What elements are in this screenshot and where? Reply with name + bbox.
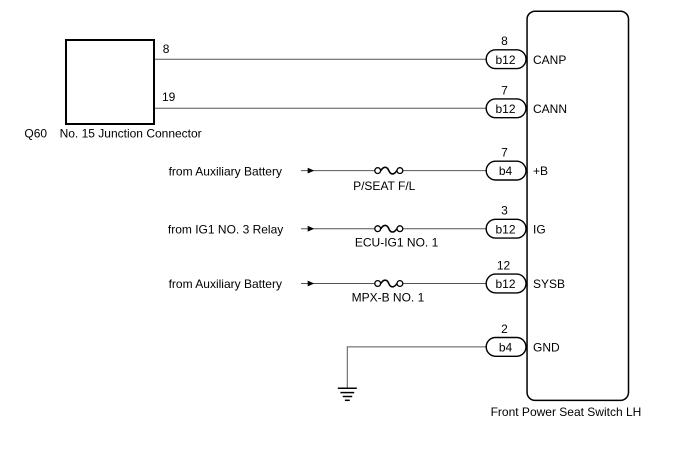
arrow SYSB row	[308, 281, 315, 287]
net label +B	[533, 164, 548, 178]
arrow +B row	[308, 168, 315, 174]
svg-text:CANN: CANN	[533, 102, 567, 116]
net label CANP	[533, 53, 566, 67]
svg-text:b12: b12	[495, 222, 515, 236]
value label ECU-IG1 NO. 1	[355, 236, 439, 250]
svg-text:b12: b12	[495, 53, 515, 67]
pin number 2	[501, 322, 508, 336]
svg-text:GND: GND	[533, 341, 560, 355]
svg-text:2: 2	[501, 322, 508, 336]
connector b12 pin 3 (IG)	[486, 219, 526, 238]
label No. 15 Junction Connector	[60, 127, 202, 141]
svg-text:MPX-B NO. 1: MPX-B NO. 1	[352, 290, 425, 304]
pin number 7	[501, 146, 508, 160]
net label GND	[533, 341, 560, 355]
svg-text:7: 7	[501, 146, 508, 160]
wire CANP (Q60 pin 8 to b12 pin 8)	[155, 58, 486, 60]
arrow IG row	[308, 226, 315, 232]
svg-text:b12: b12	[495, 102, 515, 116]
net label CANN	[533, 102, 567, 116]
svg-text:from Auxiliary Battery: from Auxiliary Battery	[169, 164, 282, 178]
wire +B row	[301, 170, 486, 172]
wire CANN (Q60 pin 19 to b12 pin 7)	[155, 107, 486, 109]
svg-text:Front Power Seat Switch LH: Front Power Seat Switch LH	[491, 405, 642, 419]
pin number 3	[501, 204, 508, 218]
svg-text:+B: +B	[533, 164, 548, 178]
net label SYSB	[533, 277, 565, 291]
svg-text:SYSB: SYSB	[533, 277, 565, 291]
svg-text:b12: b12	[495, 277, 515, 291]
node from Auxiliary Battery (SYSB row)	[169, 277, 282, 291]
node from Auxiliary Battery (+B row)	[169, 164, 282, 178]
svg-text:b4: b4	[499, 164, 513, 178]
svg-text:b4: b4	[499, 341, 513, 355]
svg-text:P/SEAT F/L: P/SEAT F/L	[353, 179, 416, 193]
svg-text:19: 19	[162, 90, 176, 104]
svg-text:CANP: CANP	[533, 53, 566, 67]
node from IG1 NO. 3 Relay (IG row)	[168, 222, 283, 236]
wire GND row	[347, 347, 486, 388]
value label P/SEAT F/L	[353, 179, 416, 193]
label Q60	[24, 127, 47, 141]
pin number 8	[501, 34, 508, 48]
svg-text:12: 12	[497, 259, 511, 273]
connector b12 pin 7 (CANN)	[486, 99, 526, 118]
fuse P/SEAT F/L	[375, 167, 403, 174]
svg-text:7: 7	[501, 83, 508, 97]
fuse ECU-IG1 NO. 1	[375, 225, 403, 232]
connector b12 pin 8 (CANP)	[486, 50, 526, 69]
pin number 7	[501, 83, 508, 97]
svg-text:No. 15 Junction Connector: No. 15 Junction Connector	[60, 127, 202, 141]
connector b4 pin 2 (GND)	[486, 338, 526, 357]
pin number 12	[497, 259, 511, 273]
wire IG row	[301, 228, 486, 230]
svg-text:from IG1 NO. 3 Relay: from IG1 NO. 3 Relay	[168, 222, 283, 236]
junction connector Q60 box	[66, 40, 154, 124]
svg-text:Q60: Q60	[24, 127, 47, 141]
ground symbol	[338, 388, 357, 400]
svg-text:3: 3	[501, 204, 508, 218]
svg-text:ECU-IG1 NO. 1: ECU-IG1 NO. 1	[355, 236, 439, 250]
svg-text:from Auxiliary Battery: from Auxiliary Battery	[169, 277, 282, 291]
connector b4 pin 7 (+B)	[486, 161, 526, 180]
pin 19 of Q60	[162, 90, 176, 104]
wire SYSB row	[301, 283, 486, 285]
component Front Power Seat Switch LH (body)	[527, 11, 628, 400]
svg-text:8: 8	[501, 34, 508, 48]
pin 8 of Q60	[163, 42, 170, 56]
net label IG	[533, 222, 546, 236]
value label MPX-B NO. 1	[352, 290, 425, 304]
label Front Power Seat Switch LH	[491, 405, 642, 419]
connector b12 pin 12 (SYSB)	[486, 274, 526, 293]
svg-text:IG: IG	[533, 222, 546, 236]
fuse MPX-B NO. 1	[375, 280, 403, 287]
svg-text:8: 8	[163, 42, 170, 56]
